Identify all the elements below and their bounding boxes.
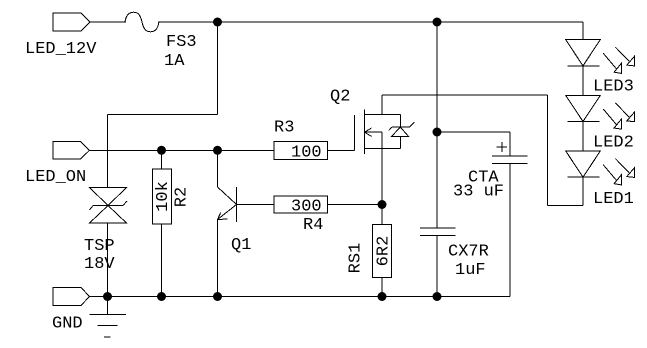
svg-text:10k: 10k — [154, 181, 173, 212]
junction CTA branch — [433, 128, 442, 137]
svg-text:Q2: Q2 — [330, 88, 350, 107]
wire Q2 drain up — [381, 95, 383, 115]
junction top rail at 12V branch — [213, 18, 222, 27]
wire LED1 cathode down — [582, 177, 584, 205]
wire Q2 source down — [381, 132, 383, 204]
wire Q2 drain to LED return — [382, 94, 548, 96]
wire R2 bottom — [161, 224, 163, 297]
resistor RS1 — [373, 225, 392, 278]
wire LED3 to LED2 — [582, 66, 584, 96]
LED LED2 — [566, 95, 635, 129]
wire top rail — [158, 21, 583, 23]
capacitor CTA — [492, 142, 528, 163]
svg-text:LED1: LED1 — [593, 190, 634, 209]
wire ground rail — [90, 296, 511, 298]
wire CTA bottom lead — [509, 163, 511, 296]
fuse FS3 — [125, 12, 159, 32]
svg-text:18V: 18V — [84, 255, 115, 274]
svg-text:300: 300 — [291, 198, 322, 217]
wire 12V to capacitors branch — [436, 22, 438, 228]
wire LED return vertical — [547, 95, 549, 205]
svg-text:GND: GND — [52, 315, 83, 334]
junction ground rail at RS1 — [378, 292, 387, 301]
wire CTA branch right — [437, 131, 510, 133]
connector LED_ON — [53, 142, 90, 160]
resistor R2 — [153, 169, 172, 224]
resistor R4 — [274, 196, 328, 213]
LED LED1 — [566, 151, 635, 185]
wire R4 to Q2 source node — [328, 204, 383, 206]
wire 12V branch down — [217, 22, 219, 115]
wire top rail to LED3 — [582, 22, 584, 40]
mosfet Q2 — [355, 110, 415, 154]
junction ground rail at R2 — [157, 292, 166, 301]
wire Q1 emitter to ground rail — [217, 220, 219, 297]
wire LED return bottom — [548, 204, 584, 206]
wire 12V branch to TVS — [107, 115, 109, 188]
wire RS1 top — [381, 205, 383, 225]
wire RS1 to ground rail — [381, 278, 383, 297]
connector GND — [53, 288, 90, 306]
junction ground rail at CX7R — [433, 292, 442, 301]
svg-text:LED_ON: LED_ON — [25, 168, 86, 187]
wire LED_ON row — [90, 149, 275, 151]
junction ground rail at TVS — [103, 292, 112, 301]
svg-text:R4: R4 — [303, 216, 323, 235]
svg-text:1A: 1A — [164, 52, 185, 71]
svg-text:LED3: LED3 — [593, 78, 634, 97]
wire LED_12V to fuse — [90, 21, 126, 23]
svg-text:CX7R: CX7R — [448, 243, 489, 262]
wire R2 top — [161, 150, 163, 169]
transistor Q1 — [218, 150, 237, 222]
wire CTA top lead — [509, 132, 511, 156]
wire LED2 to LED1 — [582, 122, 584, 152]
ground symbol — [90, 297, 127, 338]
svg-text:1uF: 1uF — [455, 261, 486, 280]
junction LED_ON at Q1 — [213, 146, 222, 155]
svg-text:R3: R3 — [274, 119, 294, 138]
capacitor CX7R — [420, 228, 455, 236]
svg-text:TSP: TSP — [84, 237, 115, 256]
LED LED3 — [566, 40, 635, 74]
junction ground rail at Q1 — [213, 292, 222, 301]
svg-text:33 uF: 33 uF — [453, 183, 504, 202]
svg-text:LED_12V: LED_12V — [25, 40, 97, 59]
svg-text:R2: R2 — [173, 187, 192, 207]
wire 12V branch left — [108, 114, 218, 116]
connector LED_12V — [53, 13, 90, 31]
svg-text:6R2: 6R2 — [375, 236, 394, 267]
svg-text:RS1: RS1 — [347, 243, 366, 274]
TVS diode TSP — [90, 188, 128, 224]
wire Q1 base to R4 — [237, 204, 275, 206]
junction node Q2 source / RS1 — [378, 200, 387, 209]
junction top rail at C branch — [433, 18, 442, 27]
svg-text:100: 100 — [291, 144, 322, 163]
wire CX7R to ground rail — [436, 236, 438, 297]
svg-text:LED2: LED2 — [593, 134, 634, 153]
wire R3 to Q2 gate — [328, 149, 355, 151]
svg-text:FS3: FS3 — [166, 33, 197, 52]
resistor R3 — [274, 142, 328, 160]
svg-text:Q1: Q1 — [231, 236, 251, 255]
wire TVS to ground rail — [107, 223, 109, 297]
junction LED_ON at R2 — [157, 146, 166, 155]
